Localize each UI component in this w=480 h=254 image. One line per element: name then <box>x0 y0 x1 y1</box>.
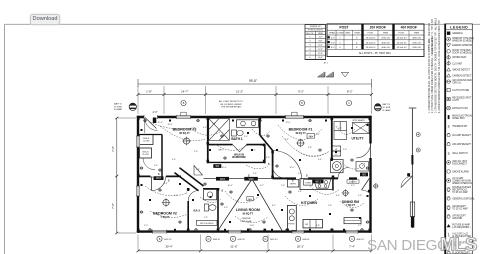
svg-text:SAN DIEGO: SAN DIEGO <box>367 237 449 254</box>
black post top wall <box>153 118 157 124</box>
window top B <box>286 112 304 119</box>
window label box dining <box>347 180 359 183</box>
fan label box <box>307 134 315 139</box>
stair table <box>305 25 326 60</box>
utility west wall <box>331 117 333 161</box>
kitchen north counter + range <box>300 179 333 190</box>
bath1 east wall <box>259 117 261 135</box>
window size texts bottom <box>164 239 364 241</box>
angled hall walls <box>180 168 204 186</box>
oven cabinet <box>304 180 313 186</box>
bath1 toilet <box>232 130 237 136</box>
living fan box <box>247 197 254 201</box>
utility closet cells <box>334 122 347 140</box>
dining bench <box>344 218 361 224</box>
window tag circles above top wall <box>181 100 186 105</box>
window left wall (bedroom2) <box>136 186 140 196</box>
window bottom A <box>153 230 167 234</box>
window bottom C <box>292 230 304 234</box>
bedroom1 west wall <box>272 150 274 179</box>
dryer <box>331 160 344 173</box>
bedroom3 south closet walls <box>140 135 154 159</box>
living vault lines <box>218 179 282 230</box>
wardrobe east wall <box>264 145 266 164</box>
dimension extension lines top <box>138 86 372 114</box>
shear tags <box>154 176 164 180</box>
svg-text:MLS: MLS <box>440 235 477 254</box>
ba2 toilet <box>204 204 208 211</box>
outlet symbols <box>140 119 370 231</box>
legend rows <box>446 32 475 254</box>
ba2 vanity <box>204 190 217 200</box>
outer wall top <box>137 116 372 118</box>
door gap right wall (utility) <box>369 144 372 159</box>
wall bath1 west <box>207 117 209 163</box>
detail door leaf <box>410 202 414 217</box>
closet door arc <box>143 158 155 170</box>
rotated note column <box>428 17 441 113</box>
kitchen west counter <box>287 206 296 231</box>
kitchen island <box>303 220 323 228</box>
dimension line 99ft top <box>138 79 372 87</box>
detail circles <box>416 133 420 137</box>
door gap utility/kitchen <box>338 177 349 181</box>
hall south wall <box>137 175 181 177</box>
door gap dining top <box>357 177 370 181</box>
batts note right <box>374 104 381 111</box>
right detail post <box>411 109 413 229</box>
wall bath1 south <box>207 144 266 146</box>
wiring arcs <box>145 122 365 223</box>
legend box <box>445 24 473 254</box>
roof slope symbols <box>318 72 349 77</box>
dimension line segments <box>137 93 374 96</box>
ba2 north wall <box>203 188 218 190</box>
double door to wardrobe <box>233 143 247 147</box>
shower hatched <box>209 119 230 141</box>
detail black bar <box>411 217 414 228</box>
bedroom1 door arc <box>273 166 285 178</box>
utility sink <box>356 162 369 172</box>
small inline dims <box>144 122 362 227</box>
wall south of bed1/utility <box>273 177 371 179</box>
wall junction posts <box>137 118 371 232</box>
window bottom B <box>229 230 242 234</box>
download button <box>30 14 60 25</box>
fan dining <box>343 190 348 195</box>
ba2 door gap <box>187 191 190 201</box>
fan bedroom3 <box>183 138 189 144</box>
fan bedroom1 <box>297 140 303 146</box>
door tag circles below bottom wall <box>157 236 162 241</box>
angled wall bath/bed1 <box>260 135 273 151</box>
outer wall bottom <box>137 230 372 232</box>
bedroom2/ba2 west wall <box>187 188 189 231</box>
bedroom3 hall door wedge <box>194 166 203 176</box>
ba2 east wall <box>217 188 219 231</box>
window bottom D <box>346 230 358 234</box>
door gap kitchen entry <box>296 177 308 181</box>
kitchen/dining divider <box>332 178 334 190</box>
shelf box <box>197 220 218 225</box>
bottom dimension labels <box>165 245 355 249</box>
living room beam line <box>204 178 273 180</box>
window top A <box>177 112 191 119</box>
switch letters <box>158 164 354 195</box>
window left wall (bedroom3) <box>136 136 140 147</box>
bottom dimension line <box>137 249 374 252</box>
outer wall right <box>369 116 371 233</box>
room labels <box>153 128 364 223</box>
bedroom1 door swing arc <box>273 151 302 180</box>
porch light <box>374 184 378 188</box>
bath1 vanity <box>237 120 259 128</box>
entry door top wall <box>144 115 158 119</box>
fan bedroom2 <box>163 199 169 205</box>
hall door gap + swing <box>151 175 167 179</box>
washer dryer boxes <box>332 146 341 156</box>
ba2 door arc <box>188 191 199 202</box>
left dimension line <box>115 117 136 234</box>
batts note left <box>114 103 123 112</box>
wardrobe south wall <box>207 161 266 163</box>
note text top <box>219 100 243 108</box>
closet texts <box>142 138 150 156</box>
rotated notes beside table <box>429 37 435 52</box>
post table <box>327 24 424 57</box>
outer wall left <box>137 116 139 233</box>
detail door wedge <box>407 173 410 176</box>
refrigerator <box>287 180 298 188</box>
